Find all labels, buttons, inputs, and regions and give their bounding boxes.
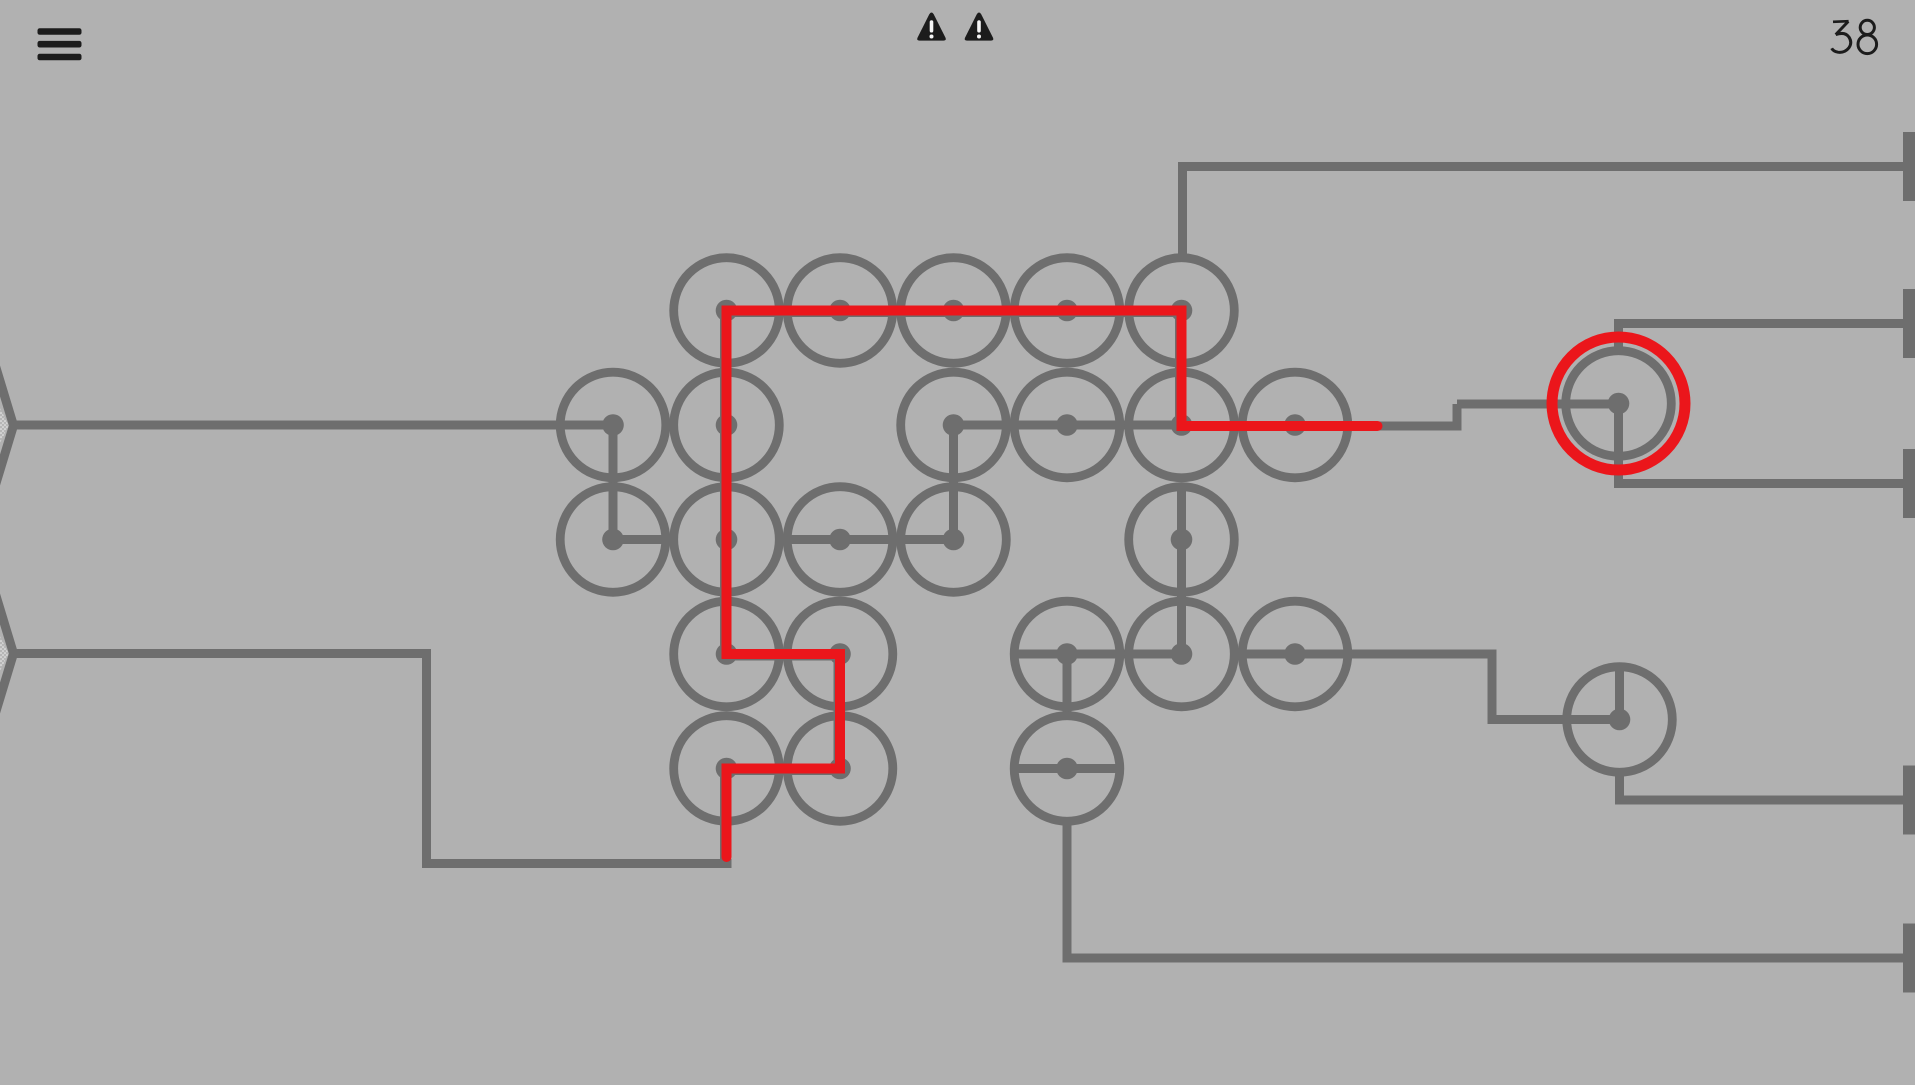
wire node B3 to node C3: [949, 425, 958, 540]
node D2 dot: [829, 643, 851, 665]
left input connector 2 (half diamond at y=653.5): [0, 510, 14, 797]
node A5 circle: [1129, 258, 1235, 364]
node C5 circle: [1129, 487, 1235, 593]
terminal cap 1: [1903, 132, 1915, 201]
wire node G dot down then right to terminal cap 3: [1619, 404, 1904, 484]
node D4 dot: [1056, 643, 1078, 665]
node B4 dot: [1056, 414, 1078, 436]
wire row B from node B3 dot to node B5: [954, 421, 1182, 430]
wire under red path: node E2 to node E1: [725, 766, 839, 775]
left input connector 1 (half diamond at y=425.5): [0, 282, 14, 569]
node B4 circle: [1014, 372, 1120, 478]
warning icon 2: [965, 13, 994, 41]
node E1 dot: [716, 758, 738, 780]
wire node D4 dot down to node E4 top edge: [1063, 654, 1072, 713]
node G circle (red-ringed goal): [1566, 351, 1672, 457]
wire jog to red-ringed node G dot: [1457, 400, 1619, 409]
node A1 dot: [716, 300, 738, 322]
node E2 circle: [787, 716, 893, 822]
node B3 circle: [901, 372, 1007, 478]
node F circle: [1567, 667, 1673, 773]
terminal cap 4: [1903, 766, 1915, 835]
wire top terminal run: node A5 to right edge cap 1: [1183, 167, 1904, 254]
wire node F top edge to dot: [1615, 663, 1624, 720]
node D2 circle: [787, 601, 893, 707]
wire under red path: node A1 down to node D1: [720, 313, 729, 657]
node C1 circle: [674, 487, 780, 593]
node D1 dot: [716, 643, 738, 665]
node E1 circle: [674, 716, 780, 822]
wire under red path: node E1 down to bottom wire: [720, 771, 729, 864]
node B6 dot: [1284, 414, 1306, 436]
node A5 dot: [1171, 300, 1193, 322]
node C0 circle: [560, 487, 666, 593]
node B1 circle: [674, 372, 780, 478]
red signal path: [727, 311, 1378, 858]
node D4 circle: [1014, 601, 1120, 707]
wire from connector 2 down and right to below node E1: [14, 654, 732, 864]
node A2 circle: [787, 258, 893, 364]
wire jog vertical step: [1453, 404, 1462, 431]
terminal cap 2: [1903, 289, 1915, 358]
wire node B5 bottom edge through node C5 to node D5: [1177, 483, 1186, 654]
node C3 circle: [901, 487, 1007, 593]
node A3 circle: [901, 258, 1007, 364]
wire node C0 dot to edge of node C1: [613, 535, 670, 544]
node D5 circle: [1129, 601, 1235, 707]
node B3 dot: [943, 414, 965, 436]
node C2 dot: [829, 529, 851, 551]
node F dot: [1609, 709, 1631, 731]
wire node E4 bottom edge down then right to terminal cap 5: [1067, 823, 1903, 958]
node A4 dot: [1056, 300, 1078, 322]
wire under red path: node D2 to node E2: [834, 656, 843, 771]
wire node D6 horizontal through dot, jog down to node F dot: [1240, 654, 1620, 720]
node E4 dot: [1056, 758, 1078, 780]
warning icon 1: [917, 13, 946, 41]
node G dot: [1608, 393, 1630, 415]
node D1 circle: [674, 601, 780, 707]
wire under red path: node D1 to node D2: [725, 652, 839, 661]
wire under red path: node A5 to node B5: [1175, 313, 1184, 426]
node C3 dot: [943, 529, 965, 551]
node C1 dot: [716, 529, 738, 551]
node B5 dot: [1171, 414, 1193, 436]
node A1 circle: [674, 258, 780, 364]
wire node B0 to node C0: [609, 425, 618, 540]
node E2 dot: [829, 758, 851, 780]
node B0 dot: [602, 414, 624, 436]
wire row B from node B5 to jog: [1182, 422, 1458, 431]
node B6 circle: [1242, 372, 1348, 478]
node D5 dot: [1171, 643, 1193, 665]
node A4 circle: [1014, 258, 1120, 364]
wire node F bottom edge down then right to terminal cap 4: [1620, 776, 1904, 801]
node C0 dot: [602, 529, 624, 551]
node C5 dot: [1171, 529, 1193, 551]
node B5 circle: [1129, 372, 1235, 478]
wire from connector 1 to node B0: [14, 421, 614, 430]
wire under red path: row A: [725, 308, 1180, 317]
wire stub below red tip: [722, 845, 731, 864]
red ring highlight around node G: [1552, 337, 1685, 470]
wire row D from edge of node D4 to node D5 dot: [1012, 650, 1182, 659]
node D6 dot: [1284, 643, 1306, 665]
wire node E4 horizontal diameter: [1011, 764, 1124, 773]
node E4 circle: [1014, 716, 1120, 822]
node C2 circle: [787, 487, 893, 593]
node B1 dot: [716, 414, 738, 436]
terminal cap 5: [1903, 924, 1915, 993]
node B0 circle: [560, 372, 666, 478]
menu icon (hamburger): [38, 28, 82, 60]
node A3 dot: [943, 300, 965, 322]
node A2 dot: [829, 300, 851, 322]
level number 38: [1832, 20, 1877, 53]
wire stub above node G and run to terminal cap 2: [1619, 324, 1904, 348]
node D6 circle: [1242, 601, 1348, 707]
terminal cap 3: [1903, 449, 1915, 518]
wire row C through node C2 dot to node C3 dot: [785, 535, 954, 544]
